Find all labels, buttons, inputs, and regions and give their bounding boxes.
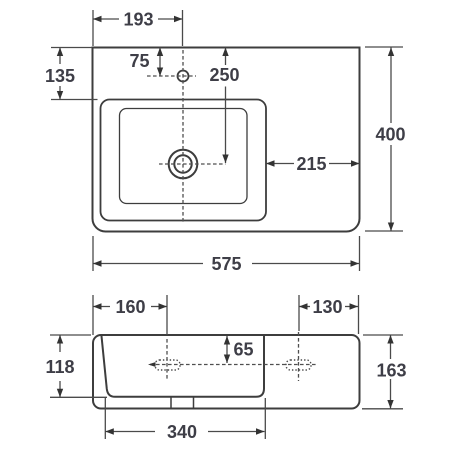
dimension 400 (365, 47, 406, 231)
dimension 65 (224, 336, 254, 363)
left hole vertical centerline (166, 339, 168, 381)
dimension 340 (105, 398, 265, 442)
svg-text:250: 250 (209, 65, 239, 85)
waste outlet tab (171, 397, 194, 409)
dimension 75 (129, 48, 163, 77)
top view basin outline (93, 48, 360, 232)
centerline vertical top view (182, 50, 184, 223)
svg-text:400: 400 (375, 125, 405, 145)
front horizontal centerline with arrow (150, 364, 318, 366)
top view bowl inner rim (120, 109, 248, 204)
svg-text:118: 118 (45, 357, 74, 377)
tap hole (178, 71, 189, 82)
svg-text:193: 193 (123, 10, 153, 30)
drain inner circle (174, 155, 191, 172)
svg-text:135: 135 (45, 66, 75, 86)
right hole vertical centerline (298, 332, 300, 381)
svg-text:160: 160 (115, 297, 145, 317)
centerline drain horizontal (159, 163, 226, 165)
dimension 193 (93, 10, 183, 47)
svg-text:340: 340 (167, 422, 197, 442)
svg-text:575: 575 (211, 254, 241, 274)
top view bowl outer rim (101, 100, 267, 221)
dimension 215 (266, 154, 360, 174)
right fixing hole dotted (286, 360, 311, 370)
centerline tap horizontal (147, 75, 196, 77)
drain outer circle (169, 150, 198, 179)
front view bowl profile (102, 336, 265, 397)
left fixing hole dotted (155, 360, 180, 370)
dimension 118 (45, 335, 107, 397)
svg-text:215: 215 (296, 154, 326, 174)
svg-text:65: 65 (234, 340, 254, 360)
dimension 575 (93, 236, 360, 274)
front view outline (93, 335, 360, 409)
svg-text:75: 75 (129, 51, 149, 71)
svg-text:163: 163 (376, 361, 406, 381)
dimension 130 (299, 295, 359, 334)
dimension 135 (45, 48, 98, 100)
dimension 250 (209, 48, 239, 164)
svg-text:130: 130 (312, 297, 342, 317)
dimension 163 (362, 335, 407, 409)
dimension 160 (93, 295, 167, 335)
